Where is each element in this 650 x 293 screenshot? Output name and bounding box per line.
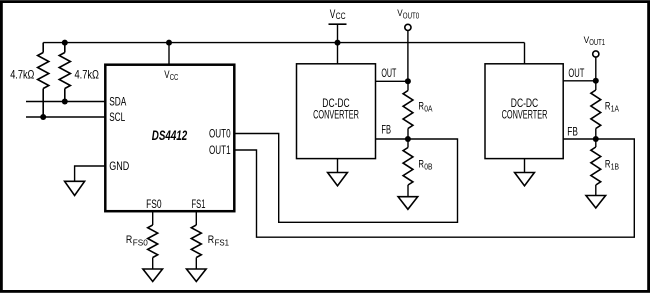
wire OUT1 to FB node of converter U3 <box>234 139 634 237</box>
wire SCL bus line <box>26 116 105 118</box>
svg-text:CONVERTER: CONVERTER <box>313 107 359 121</box>
svg-text:V: V <box>330 7 336 21</box>
ground (RFS0) <box>143 269 163 282</box>
svg-text:OUT: OUT <box>381 66 396 80</box>
junction dot SCL/left resistor <box>40 114 46 120</box>
ground (R0B) <box>398 197 418 210</box>
wire U3 bottom pin <box>524 159 526 173</box>
svg-text:OUT1: OUT1 <box>589 38 605 47</box>
svg-text:SDA: SDA <box>109 95 126 109</box>
resistor RFS1 <box>191 211 201 269</box>
svg-text:FS1: FS1 <box>215 239 230 248</box>
wire VOUT0 down to OUT node (crosses rail, no dot) <box>407 31 409 82</box>
ground (U2) <box>328 173 348 186</box>
junction dot U2 FB node <box>405 136 411 142</box>
op IC U1 DS4412 box <box>105 65 234 212</box>
VOUT0 terminal <box>397 8 419 81</box>
ground (U3) <box>515 173 535 186</box>
ground (R1B) <box>586 196 606 209</box>
svg-text:DS4412: DS4412 <box>152 128 188 143</box>
junction dot SDA/right resistor <box>62 99 68 105</box>
svg-text:4.7kΩ: 4.7kΩ <box>75 68 100 82</box>
junction dot rail/right resistor <box>62 40 68 46</box>
svg-text:OUT0: OUT0 <box>403 11 420 20</box>
svg-text:4.7kΩ: 4.7kΩ <box>10 68 34 82</box>
wire OUT0 to FB node of converter U2 <box>234 134 457 223</box>
junction dot U2 OUT node <box>405 78 411 84</box>
resistor 4.7k left (pull-up to SCL) <box>38 43 49 117</box>
resistor R0A <box>403 81 413 139</box>
junction dot rail/VCC terminal <box>335 40 341 46</box>
svg-text:FS0: FS0 <box>133 239 148 248</box>
svg-text:CC: CC <box>336 11 346 21</box>
resistor R0B <box>403 139 413 197</box>
VOUT1 terminal <box>584 35 606 81</box>
svg-text:CC: CC <box>170 73 179 82</box>
wire U2 bottom pin <box>337 159 339 173</box>
wire GND pin to ground <box>75 166 106 181</box>
junction dot U3 OUT node <box>593 78 599 84</box>
ground (GND pin) <box>65 181 85 195</box>
svg-text:0A: 0A <box>424 105 433 114</box>
wire U2 FB pin <box>376 138 408 140</box>
wire DS4412 VCC pin <box>168 43 170 65</box>
svg-text:CONVERTER: CONVERTER <box>502 107 548 121</box>
svg-text:OUT1: OUT1 <box>209 143 231 157</box>
svg-text:OUT0: OUT0 <box>209 126 231 140</box>
resistor R1A <box>591 81 601 139</box>
svg-text:GND: GND <box>109 159 129 173</box>
svg-text:1B: 1B <box>611 163 619 172</box>
converter U3 box <box>485 64 563 159</box>
resistor 4.7k right (pull-up to SDA) <box>59 43 70 102</box>
svg-text:FS0: FS0 <box>146 197 162 211</box>
svg-text:0B: 0B <box>424 163 432 172</box>
VCC terminal symbol <box>329 7 347 64</box>
wire U3 FB pin <box>563 138 596 140</box>
wire VOUT1 to OUT node <box>595 57 597 81</box>
wire U3 OUT pin <box>563 80 596 82</box>
svg-text:FB: FB <box>567 125 578 139</box>
converter U2 box <box>297 64 376 159</box>
wire rail drop to converter U3 top pin <box>524 43 526 64</box>
resistor R1B <box>591 139 601 196</box>
wire VCC top rail <box>43 42 524 44</box>
resistor RFS0 <box>148 211 158 269</box>
junction dot U3 FB node <box>593 136 599 142</box>
svg-text:OUT: OUT <box>568 66 584 80</box>
svg-text:SCL: SCL <box>109 110 125 124</box>
svg-text:R: R <box>208 234 214 246</box>
svg-text:1A: 1A <box>611 105 620 114</box>
svg-text:R: R <box>126 234 132 246</box>
ground (RFS1) <box>187 269 207 282</box>
wire U2 OUT pin <box>376 80 408 82</box>
svg-text:FS1: FS1 <box>192 197 206 211</box>
junction dot rail/DS4412 VCC pin <box>166 40 172 46</box>
wire SDA bus line <box>26 101 105 103</box>
svg-text:FB: FB <box>381 123 391 137</box>
